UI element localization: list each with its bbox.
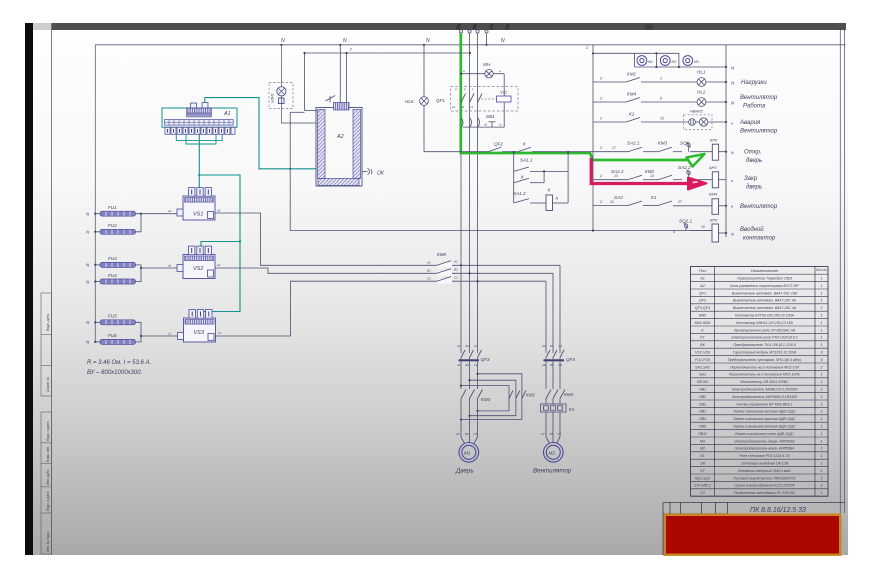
svg-text:SB1: SB1: [486, 114, 495, 119]
svg-text:13: 13: [614, 174, 618, 178]
svg-text:Оптопара выходная ОК-12В: Оптопара выходная ОК-12В: [741, 462, 789, 466]
junction dot N bus: [485, 44, 487, 46]
left black bar: [25, 23, 33, 555]
inner drawing frame: [95, 30, 845, 513]
svg-text:1: 1: [820, 462, 822, 466]
svg-text:НВ-М3: НВ-М3: [697, 380, 709, 384]
node teal branch VS2: [239, 240, 241, 242]
svg-text:КМ3: КМ3: [481, 397, 491, 402]
svg-text:Блок управления тиристорами БУ: Блок управления тиристорами БУСТ-ФР: [730, 284, 799, 288]
svg-text:2: 2: [819, 306, 822, 310]
svg-text:Сушка стыка-обрезков 4С22-22РО: Сушка стыка-обрезков 4С22-22РОФ: [734, 484, 795, 488]
wire A2 drop to input row: [290, 111, 304, 113]
wires fuse connections: [95, 214, 177, 342]
wire reversing loop inner: [470, 380, 516, 416]
svg-text:М1: М1: [648, 60, 653, 64]
top dark toolbar bar: [33, 23, 52, 30]
svg-text:R = 3.46 Ом. I = 53.6 А.: R = 3.46 Ом. I = 53.6 А.: [87, 360, 151, 366]
svg-text:SA3: SA3: [699, 373, 707, 377]
svg-text:21: 21: [609, 200, 614, 204]
wire to motor M1: [461, 399, 478, 444]
svg-text:VS1: VS1: [193, 212, 203, 218]
controller A1 top hatched connector: [187, 108, 212, 113]
svg-text:КТ: КТ: [700, 336, 705, 340]
svg-text:SA3: SA3: [614, 195, 623, 200]
svg-text:Кол-во: Кол-во: [816, 268, 827, 272]
wire control right N bus: [725, 45, 727, 237]
svg-text:ВУ – 800х1000х300.: ВУ – 800х1000х300.: [87, 370, 142, 376]
svg-text:1: 1: [820, 439, 822, 443]
wire VS1 output to row1: [215, 213, 560, 265]
svg-text:К1: К1: [700, 454, 704, 458]
controller A1 long terminal bar: [164, 120, 233, 126]
svg-text:2: 2: [819, 484, 822, 488]
svg-text:N: N: [343, 38, 347, 44]
motor M1: [459, 443, 479, 463]
thyristor module VS2: [177, 246, 215, 278]
terminal X3 coil KM4: [712, 199, 719, 215]
annotation green highlight line: [461, 34, 689, 161]
wire phase line A vertical: [460, 34, 462, 354]
svg-text:КМ1: КМ1: [627, 72, 637, 77]
svg-text:А1: А1: [223, 111, 231, 117]
fan symbol M3: [683, 56, 693, 66]
svg-text:КМ4: КМ4: [564, 392, 574, 397]
coil YO: [497, 96, 512, 102]
svg-text:К: К: [548, 188, 551, 193]
svg-text:Вентилятор: Вентилятор: [740, 95, 778, 101]
svg-text:А2: А2: [699, 284, 705, 288]
svg-text:Инв. № подл.: Инв. № подл.: [46, 531, 50, 552]
svg-text:1: 1: [820, 284, 822, 288]
svg-text:Наименование: Наименование: [751, 268, 779, 273]
node fuse rail dots: [94, 213, 142, 343]
svg-text:FU5: FU5: [108, 314, 117, 319]
row Откр дверь: [461, 147, 726, 152]
row Вводной контактор: [682, 231, 726, 234]
row lamp HL2 Вентилятор Работа: [593, 98, 726, 107]
row lamp HL1 Нагрузки: [593, 78, 726, 87]
node input row left bus joint: [592, 229, 594, 231]
svg-text:SA1,SA2: SA1,SA2: [695, 365, 710, 369]
VS terminal tick labels: [168, 209, 222, 336]
limit switch SQ flag row2: [687, 170, 691, 180]
svg-text:А1: А1: [456, 344, 461, 348]
svg-text:КМ0: КМ0: [699, 314, 707, 318]
wire VS3 output to row3: [216, 281, 546, 336]
svg-text:Путевой выключатель ПМ102М2Р00: Путевой выключатель ПМ102М2Р00: [734, 476, 796, 480]
svg-text:Переключатель на 3 положения М: Переключатель на 3 положения МП2-10Л: [730, 365, 800, 369]
svg-text:1: 1: [820, 469, 822, 473]
svg-text:QF3: QF3: [481, 357, 490, 362]
svg-text:А4: А4: [456, 363, 461, 367]
motor M2: [544, 443, 564, 463]
svg-text:Терморегулятор Термодат 25Е6: Терморегулятор Термодат 25Е6: [737, 277, 792, 281]
svg-text:N: N: [281, 38, 285, 44]
svg-text:Выключатель автомат. ВА47-29С: Выключатель автомат. ВА47-29С 16А: [732, 291, 798, 295]
svg-text:В4: В4: [466, 363, 470, 367]
controller A1 bottom terminal row: [165, 127, 235, 134]
svg-text:Кнопка управления ВР-М02-ВЕ4.2: Кнопка управления ВР-М02-ВЕ4.2: [737, 402, 793, 406]
node bus taps: [303, 44, 471, 54]
svg-text:С1: С1: [427, 277, 431, 281]
row Вентилятор: [593, 201, 726, 206]
svg-text:1: 1: [820, 321, 822, 325]
svg-text:К1: К1: [651, 195, 657, 200]
svg-text:К: К: [521, 175, 524, 180]
wire VS2 output to row2: [215, 268, 553, 273]
svg-text:НВ4Л2: НВ4Л2: [690, 109, 704, 114]
svg-text:Поз: Поз: [699, 268, 706, 273]
wire rail to FU1..FU6: [95, 213, 100, 215]
svg-text:1: 1: [820, 432, 822, 436]
antenna symbol on A2: [326, 96, 336, 103]
svg-text:КМ0: КМ0: [437, 252, 447, 257]
svg-text:С5: С5: [474, 432, 478, 436]
svg-text:К: К: [523, 142, 526, 147]
svg-text:1: 1: [820, 299, 822, 303]
svg-text:НВ2: НВ2: [699, 395, 706, 399]
svg-text:1: 1: [820, 454, 822, 458]
svg-text:Предохранитель сухозаряж. ПН3-: Предохранитель сухозаряж. ПН3-1(0.5 кВт): [728, 358, 801, 362]
node row phase taps: [460, 264, 479, 282]
fuse FU3: [100, 256, 136, 267]
svg-text:Переключатель на 2 положения М: Переключатель на 2 положения МП2-10ЛС: [729, 373, 801, 377]
svg-text:FU1: FU1: [108, 205, 117, 210]
row Закр дверь: [593, 175, 726, 180]
svg-text:Работа: Работа: [743, 104, 766, 110]
svg-text:Клеммник наборный ЗНИ-4 мм2: Клеммник наборный ЗНИ-4 мм2: [738, 469, 790, 473]
svg-text:Вентилятор ОВ-3004 220ВС: Вентилятор ОВ-3004 220ВС: [740, 380, 789, 384]
svg-text:Откр.: Откр.: [744, 150, 762, 156]
svg-text:С2: С2: [454, 276, 458, 280]
svg-text:Реле тепловое РТИ-1314 5-7А: Реле тепловое РТИ-1314 5-7А: [739, 454, 790, 458]
svg-text:SQ2.1: SQ2.1: [679, 219, 692, 224]
svg-text:Контактор КХТ50-150-250-10 150: Контактор КХТ50-150-250-10 150А: [735, 314, 795, 318]
svg-text:YO: YO: [500, 90, 507, 95]
svg-text:FU3: FU3: [108, 256, 117, 261]
svg-text:8: 8: [660, 97, 662, 101]
svg-text:14: 14: [650, 174, 654, 178]
svg-text:КР0: КР0: [710, 138, 718, 143]
svg-text:К1: К1: [569, 407, 575, 412]
svg-text:VS1-VS3: VS1-VS3: [695, 351, 711, 355]
svg-text:В7: В7: [550, 432, 554, 436]
svg-text:НВ1: НВ1: [699, 388, 706, 392]
svg-text:FU4: FU4: [108, 273, 117, 278]
wire phase line C vertical: [477, 34, 479, 354]
svg-text:А2: А2: [336, 134, 344, 140]
svg-text:с1: с1: [470, 105, 474, 109]
wire control left bus: [592, 45, 594, 231]
svg-text:М2: М2: [549, 451, 556, 456]
svg-text:1: 1: [820, 491, 822, 495]
svg-text:М1: М1: [700, 439, 705, 443]
svg-text:ЛВ4: ЛВ4: [698, 417, 706, 421]
svg-text:1: 1: [820, 425, 822, 429]
svg-text:С1: С1: [474, 344, 478, 348]
svg-text:ЛВ6: ЛВ6: [698, 425, 707, 429]
fuse FU5: [100, 314, 136, 325]
svg-text:SA2.2: SA2.2: [678, 165, 691, 170]
svg-text:1: 1: [820, 447, 822, 451]
sensor unit NZM dashed box: [269, 83, 293, 109]
wire A2 feeds from bus: [305, 45, 471, 111]
svg-text:QF1: QF1: [699, 291, 706, 295]
svg-text:Лампа сигнальная желтая АДВ-22: Лампа сигнальная желтая АДВ-22ДС: [732, 410, 796, 414]
contactor KM0 main contacts: [437, 261, 452, 284]
svg-text:ОК: ОК: [700, 462, 706, 466]
svg-text:Преобразователь ТХА 10К (0.1-1: Преобразователь ТХА 10К (0.1-12/0.5: [733, 343, 796, 347]
note text resistance: [87, 360, 151, 376]
contactor KM1 contacts on loop: [509, 391, 526, 399]
svg-text:А1: А1: [426, 261, 431, 265]
svg-text:N: N: [731, 150, 734, 155]
wire FU5 FU6 join to VS3: [136, 322, 142, 342]
svg-text:SA1.2: SA1.2: [513, 191, 526, 196]
wire teal A1 top to A2: [205, 98, 316, 169]
svg-text:QF2: QF2: [699, 299, 706, 303]
wire FU3 FU4 join to VS2: [136, 265, 142, 282]
svg-text:Подп. и дата: Подп. и дата: [46, 421, 50, 441]
left strip cells group1: [41, 293, 52, 396]
svg-text:К1: К1: [629, 112, 635, 117]
svg-text:Электродвигатель АИР56В4 0.18/: Электродвигатель АИР56В4 0.18/1500: [732, 395, 798, 399]
svg-text:а2: а2: [217, 209, 221, 213]
svg-text:SA1.1: SA1.1: [520, 158, 533, 163]
relay coil K: [546, 195, 553, 211]
node loop taps: [460, 373, 479, 421]
svg-text:В2: В2: [454, 268, 458, 272]
svg-text:Лампа сигнальная синяя АДВ-22Д: Лампа сигнальная синяя АДВ-22ДС: [734, 432, 794, 436]
svg-text:ОК: ОК: [377, 171, 385, 177]
output OK symbol: [362, 168, 372, 174]
svg-text:в2: в2: [217, 263, 221, 267]
svg-text:В1: В1: [427, 269, 431, 273]
wire reversing loop outer: [461, 374, 522, 420]
svg-text:В5: В5: [465, 432, 469, 436]
svg-text:А1: А1: [699, 277, 705, 281]
svg-text:1: 1: [820, 410, 822, 414]
svg-text:ХЗ+ХВ5.2: ХЗ+ХВ5.2: [693, 484, 711, 488]
annotation magenta highlight line: [591, 158, 692, 184]
svg-text:А3: А3: [541, 344, 546, 348]
svg-text:2: 2: [819, 476, 822, 480]
svg-text:М2: М2: [700, 447, 705, 451]
svg-text:16: 16: [660, 117, 664, 121]
svg-text:Выключатель автомат. ВА47-29С: Выключатель автомат. ВА47-29С 6А: [733, 299, 797, 303]
svg-text:QF4: QF4: [566, 357, 575, 362]
wire fan feed drops: [546, 265, 560, 353]
svg-text:ПК 8.8.16/12.5 33: ПК 8.8.16/12.5 33: [750, 507, 806, 514]
svg-text:FU6: FU6: [108, 333, 117, 338]
svg-text:Лампа сигнальная зеленая АДВ-2: Лампа сигнальная зеленая АДВ-22ДС: [732, 425, 796, 429]
wire to motor M2: [546, 412, 560, 444]
limit switch SQ1 flag: [687, 142, 691, 152]
BOM parts table: [691, 267, 829, 497]
wire HL6 row to green corner: [424, 151, 461, 153]
svg-text:Авария: Авария: [739, 120, 761, 126]
svg-text:VS3: VS3: [194, 330, 205, 336]
breaker QF1 with shunt coil dashed box: [451, 87, 519, 112]
svg-text:QF3,QF4: QF3,QF4: [695, 306, 710, 310]
svg-text:М1: М1: [464, 451, 471, 456]
svg-text:1: 1: [820, 402, 822, 406]
fuse FU4: [100, 273, 136, 284]
svg-text:SQ1,SQ2: SQ1,SQ2: [695, 476, 711, 480]
thyristor control unit A2: [316, 103, 362, 187]
contactor KM3 contacts: [461, 390, 483, 399]
svg-text:1: 1: [820, 388, 822, 392]
svg-text:FU1-FU6: FU1-FU6: [695, 358, 711, 362]
svg-text:А2: А2: [453, 260, 458, 264]
terminal X4 coil KM0: [712, 224, 719, 242]
svg-text:4: 4: [673, 230, 675, 234]
red stamp overlay: [666, 516, 839, 554]
svg-text:Электротепловое реле РТИ-1316: Электротепловое реле РТИ-1316 (0.6-1: [731, 336, 798, 340]
svg-text:КМ1-КМ4: КМ1-КМ4: [695, 321, 711, 325]
thyristor module VS3: [178, 310, 216, 342]
svg-text:С3: С3: [559, 344, 563, 348]
svg-text:N: N: [556, 197, 559, 201]
svg-text:Нагрузки: Нагрузки: [741, 80, 767, 86]
svg-text:ЛВ1: ЛВ1: [698, 410, 706, 414]
svg-text:SB1: SB1: [699, 402, 706, 406]
svg-text:HL1: HL1: [697, 70, 706, 75]
svg-text:Подп. и дата: Подп. и дата: [46, 491, 50, 511]
svg-text:2: 2: [819, 365, 822, 369]
svg-text:3: 3: [660, 77, 662, 81]
svg-text:Инв. дубл.: Инв. дубл.: [46, 469, 50, 485]
fuse FU6: [100, 333, 136, 344]
svg-text:КМ1: КМ1: [526, 393, 536, 398]
wire door verticals below QF3: [461, 358, 478, 390]
wire NZM stub: [280, 45, 282, 87]
svg-text:1: 1: [820, 328, 822, 332]
contactor KM4 contacts: [546, 390, 565, 399]
terminal X1: [712, 144, 718, 160]
svg-text:1: 1: [820, 417, 822, 421]
svg-text:1: 1: [820, 380, 822, 384]
svg-text:Промежуточное реле СР-М223АС 6: Промежуточное реле СР-М223АС 6А: [734, 328, 796, 332]
breaker QF3: [461, 350, 482, 358]
svg-text:ВК: ВК: [700, 343, 705, 347]
svg-text:16: 16: [701, 225, 705, 229]
svg-text:Контактор КМИ11-ОЛ-230-13 18А: Контактор КМИ11-ОЛ-230-13 18А: [736, 321, 793, 325]
svg-text:Подп. дата: Подп. дата: [46, 314, 50, 331]
svg-text:SA2.1: SA2.1: [627, 141, 640, 146]
svg-text:1: 1: [820, 336, 822, 340]
svg-text:Справ. №: Справ. №: [46, 377, 50, 392]
svg-text:Электродвигатель дверн. АИР56А: Электродвигатель дверн. АИР56А2: [734, 439, 795, 443]
svg-text:Электродвигатель вент. АИР56В4: Электродвигатель вент. АИР56В4: [735, 447, 795, 451]
N bus labels: [281, 38, 505, 44]
selector SA1 sub circuit: [514, 152, 568, 203]
svg-text:ЛВ11: ЛВ11: [697, 432, 707, 436]
svg-text:дверь: дверь: [746, 185, 762, 191]
svg-text:HL6: HL6: [405, 99, 414, 104]
wire teal trunk A1 to VS1: [198, 135, 200, 188]
svg-text:а1: а1: [168, 209, 172, 213]
top bar label smudges: [456, 24, 653, 30]
wire reversing loop mid: [461, 386, 509, 411]
fuse FU2: [100, 223, 136, 234]
svg-text:Вентилятор: Вентилятор: [740, 204, 778, 210]
svg-text:КР0: КР0: [710, 218, 718, 223]
lamp HL6: [420, 45, 429, 152]
controller A1 top small terminal boxes: [191, 103, 209, 108]
svg-text:Закр: Закр: [744, 176, 758, 182]
svg-text:1: 1: [820, 277, 822, 281]
svg-text:В1: В1: [466, 344, 470, 348]
svg-text:VS2: VS2: [193, 266, 203, 272]
svg-text:С7: С7: [558, 432, 562, 436]
svg-text:с2: с2: [218, 331, 222, 335]
svg-text:МН: МН: [483, 62, 491, 67]
svg-text:КМ3: КМ3: [658, 141, 668, 146]
node teal trunk branch: [198, 174, 200, 176]
svg-text:НЗМ1: НЗМ1: [271, 93, 275, 103]
svg-text:КМ4: КМ4: [627, 92, 637, 97]
svg-text:QF1: QF1: [436, 98, 445, 103]
thermal relay K1 heaters: [541, 399, 567, 413]
svg-text:УЗ: УЗ: [700, 491, 705, 495]
svg-text:ХТ: ХТ: [699, 469, 705, 473]
svg-text:Тиристорный модуль МТ1203-12 2: Тиристорный модуль МТ1203-12 200А: [733, 351, 797, 355]
svg-text:А5: А5: [455, 432, 460, 436]
svg-text:Вентилятор: Вентилятор: [740, 129, 778, 135]
row lamps HL4 HL5 Авария: [593, 118, 726, 127]
svg-text:N: N: [426, 38, 430, 44]
svg-text:N: N: [501, 38, 505, 44]
fuse FU1: [100, 205, 136, 216]
svg-text:17: 17: [612, 146, 616, 150]
controller A1 outer box: [162, 108, 237, 127]
limit switch SQ2 flag: [684, 223, 688, 231]
svg-text:М2: М2: [672, 60, 677, 64]
svg-text:Электродвигатель 5АИВО16 0.25/: Электродвигатель 5АИВО16 0.25/3000: [732, 388, 798, 392]
svg-text:Выключатель автомат. ВА47-29С: Выключатель автомат. ВА47-29С 4А: [733, 306, 797, 310]
fan unit M1-M3 chain: [593, 53, 726, 67]
wire N terminal stub: [486, 34, 488, 45]
svg-text:КМ4: КМ4: [709, 192, 718, 197]
breaker QF4: [546, 350, 564, 358]
svg-text:HL2: HL2: [697, 90, 706, 95]
wire phase line B vertical: [469, 34, 471, 354]
svg-text:1: 1: [820, 314, 822, 318]
wire teal branch to VS2 VS3: [199, 175, 240, 318]
left strip rotated captions: [46, 314, 50, 552]
svg-text:В3: В3: [550, 344, 554, 348]
svg-text:АР0: АР0: [708, 165, 717, 170]
lamp MH on phase A: [461, 70, 504, 78]
BOM table rows: [691, 281, 829, 283]
svg-text:А7: А7: [540, 432, 545, 436]
svg-text:Дверь: Дверь: [455, 468, 474, 475]
left margin strip line: [51, 23, 53, 555]
svg-text:Вводной: Вводной: [740, 226, 764, 233]
svg-text:М3: М3: [694, 60, 699, 64]
terminal X0 circles: [459, 30, 488, 33]
annotation green arrowhead: [687, 154, 705, 167]
svg-text:1: 1: [820, 343, 822, 347]
fan symbol M2: [660, 56, 670, 66]
svg-text:дверь: дверь: [746, 158, 762, 164]
svg-text:Лампа сигнальная красная АДВ-2: Лампа сигнальная красная АДВ-22ДС: [732, 417, 796, 421]
svg-text:Разделитель мехобвязки ЛУ-125/: Разделитель мехобвязки ЛУ-125/160: [734, 491, 795, 495]
svg-text:Вентилятор: Вентилятор: [533, 468, 572, 475]
svg-text:в1: в1: [168, 264, 172, 268]
